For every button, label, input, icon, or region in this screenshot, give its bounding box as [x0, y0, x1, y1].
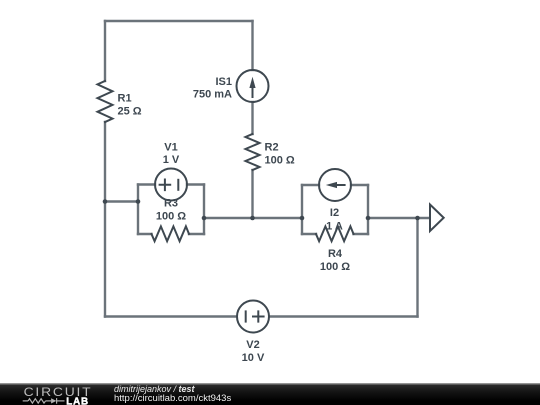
logo wire after diode [57, 400, 65, 402]
svg-text:100 Ω: 100 Ω [320, 261, 350, 273]
wire I2 left lead [302, 184, 319, 186]
wire I2 right lead [351, 184, 368, 186]
wire IS1 top lead [251, 21, 253, 70]
wire bus middle [204, 217, 302, 219]
svg-text:1 V: 1 V [163, 154, 180, 166]
wire R3 left lead [138, 233, 152, 235]
wire bottom right [270, 315, 418, 317]
footer url line [114, 393, 231, 404]
svg-text:100 Ω: 100 Ω [265, 155, 295, 167]
voltage source V2 [237, 301, 269, 333]
svg-text:25 Ω: 25 Ω [118, 106, 142, 118]
svg-text:V1: V1 [164, 141, 177, 153]
svg-text:IS1: IS1 [215, 76, 232, 88]
wire R3 right lead [189, 233, 204, 235]
wire left vertical lower [104, 122, 106, 317]
svg-text:R2: R2 [265, 142, 279, 154]
current source I2 [319, 169, 351, 201]
wire I2R4 box right edge [367, 185, 369, 234]
svg-text:100 Ω: 100 Ω [156, 211, 186, 223]
wire I2R4 box left edge [301, 185, 303, 234]
logo resistor zigzag [28, 399, 45, 403]
resistor R4 [316, 226, 354, 241]
footer user line [114, 384, 195, 394]
logo diode triangle [51, 398, 56, 403]
wire right vertical [416, 218, 418, 317]
wire bottom left [105, 315, 237, 317]
node C junction dot [202, 216, 207, 221]
wire R4 right lead [354, 233, 369, 235]
current source IS1 [237, 70, 269, 102]
wire top horizontal [105, 20, 253, 22]
wire left tap to parallel box [105, 200, 138, 202]
node B junction dot [136, 199, 141, 204]
node F junction dot [366, 216, 371, 221]
svg-text:R1: R1 [118, 93, 132, 105]
resistor R2 [246, 134, 260, 170]
svg-text:V2: V2 [246, 339, 259, 351]
svg-text:LAB: LAB [66, 396, 89, 405]
node G junction dot [415, 216, 420, 221]
node E junction dot [300, 216, 305, 221]
wire V1R3 box left edge [137, 185, 139, 235]
resistor R3 [152, 226, 190, 241]
svg-text:10 V: 10 V [242, 352, 265, 364]
node D junction dot [250, 216, 255, 221]
wire R2 to bus [251, 170, 253, 218]
wire V1 right lead [187, 183, 204, 185]
svg-text:R4: R4 [328, 248, 343, 260]
wire bus right [368, 217, 430, 219]
svg-text:1 A: 1 A [326, 221, 343, 233]
wire left vertical upper [104, 21, 106, 81]
svg-text:I2: I2 [330, 207, 339, 219]
logo resistor lead left [23, 400, 28, 402]
wire V1 left lead [138, 183, 155, 185]
footer bar [0, 383, 540, 405]
node A junction dot [103, 199, 108, 204]
logo wire to diode [46, 400, 52, 402]
logo diode bar [56, 398, 58, 404]
resistor R1 [98, 81, 113, 122]
voltage source V1 [155, 169, 187, 201]
output pin flag [430, 205, 444, 232]
wire R4 left lead [302, 233, 316, 235]
wire IS1 to R2 [251, 102, 253, 134]
svg-text:750 mA: 750 mA [193, 89, 232, 101]
svg-text:R3: R3 [164, 198, 178, 210]
wire V1R3 box right edge [203, 185, 205, 235]
